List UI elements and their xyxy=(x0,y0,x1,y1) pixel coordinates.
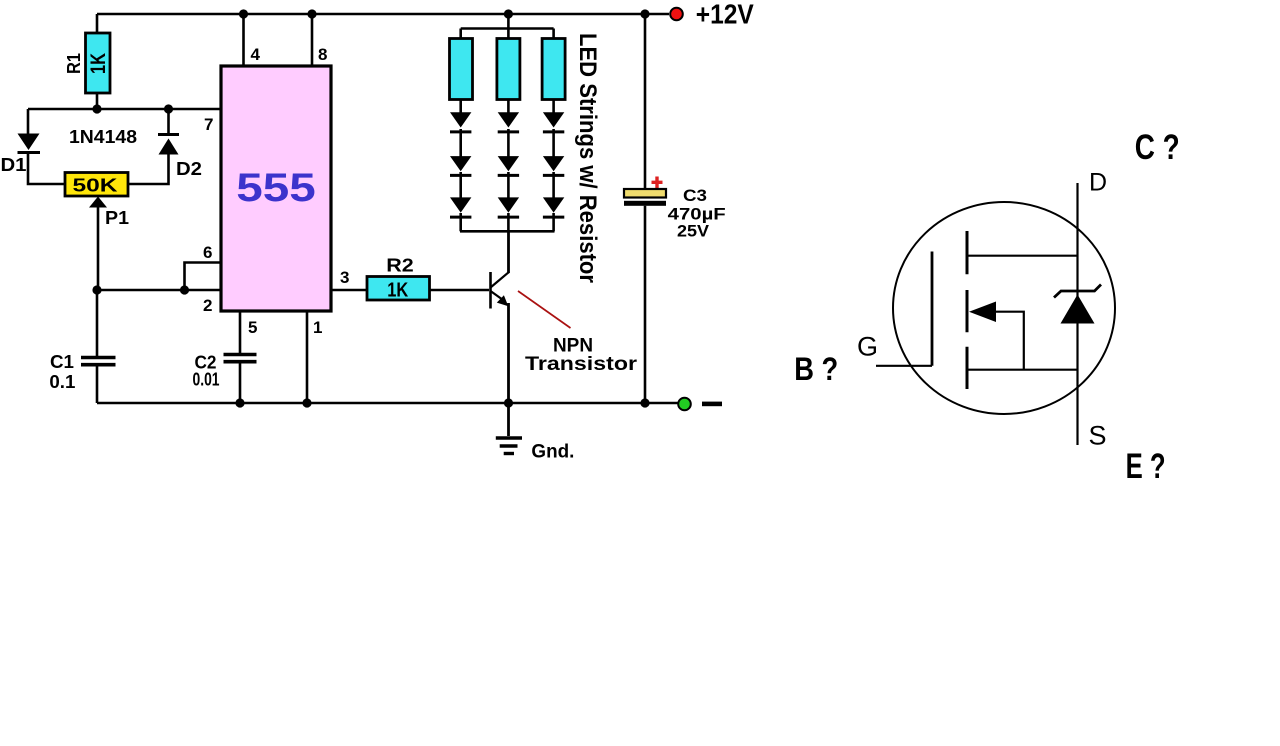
label 1N4148 xyxy=(69,127,137,147)
diode D1 xyxy=(18,134,41,153)
wiper arrow P1 xyxy=(89,197,107,208)
pin number 7 xyxy=(204,115,213,134)
svg-text:LED Strings w/ Resistor: LED Strings w/ Resistor xyxy=(574,33,601,283)
node C3 top xyxy=(640,9,649,18)
MOSFET body circle xyxy=(893,202,1115,414)
node pin8 xyxy=(307,9,316,18)
wire pin3 lead xyxy=(331,289,367,292)
polarity + (C3) xyxy=(652,177,663,189)
svg-text:B ?: B ? xyxy=(794,351,838,387)
node pin6/pin2 xyxy=(180,285,189,294)
wire string3 top xyxy=(552,29,555,39)
pin number 5 xyxy=(248,318,257,337)
label G xyxy=(857,332,878,362)
label P1 xyxy=(105,208,129,228)
wire C1 bottom lead xyxy=(96,366,99,403)
svg-text:G: G xyxy=(857,332,878,362)
wire pin4 lead xyxy=(242,14,245,66)
capacitor C2 xyxy=(224,355,257,362)
wire string2 top xyxy=(507,29,510,39)
svg-text:1K: 1K xyxy=(387,280,408,302)
label LED Strings w/ Resistor xyxy=(574,33,601,283)
node emitter/gnd xyxy=(504,398,513,407)
svg-text:C3: C3 xyxy=(683,186,707,205)
wire D1 bottom lead xyxy=(28,151,65,184)
svg-text:D1: D1 xyxy=(1,155,27,175)
annotation line to NPN xyxy=(518,291,571,328)
svg-text:C ?: C ? xyxy=(1135,128,1180,167)
wire top +12V rail xyxy=(97,13,669,16)
wire C3 bottom lead xyxy=(644,206,647,403)
label +12V xyxy=(696,0,754,30)
wire LED bottom bus xyxy=(460,230,555,233)
label R2 xyxy=(386,256,414,276)
svg-text:4: 4 xyxy=(251,45,261,64)
node pin4 xyxy=(239,9,248,18)
label R1 xyxy=(64,53,84,74)
wire drain-source vertical xyxy=(1076,183,1078,445)
node D2/pin7 xyxy=(164,104,173,113)
IC U1 555 xyxy=(221,66,331,311)
svg-text:0.1: 0.1 xyxy=(49,372,75,392)
wire ground rail xyxy=(97,402,678,405)
svg-text:3: 3 xyxy=(340,268,349,287)
svg-text:7: 7 xyxy=(204,115,213,134)
capacitor C3 xyxy=(624,189,666,206)
svg-text:Transistor: Transistor xyxy=(525,353,637,375)
pin number 8 xyxy=(318,45,327,64)
label E ? xyxy=(1126,447,1166,486)
node LED feed xyxy=(504,9,513,18)
wire D2 bottom lead xyxy=(128,153,169,184)
svg-text:C1: C1 xyxy=(50,352,74,372)
wire wiper to pin2 xyxy=(97,206,100,290)
node P1/C1/pin2 xyxy=(92,285,101,294)
svg-text:S: S xyxy=(1088,421,1106,451)
wire gate lead xyxy=(876,365,932,367)
LED string 1 xyxy=(450,100,471,232)
pin number 1 xyxy=(313,318,322,337)
label 555 xyxy=(236,166,316,210)
wire C1 top lead xyxy=(96,290,99,356)
resistor string1 xyxy=(450,39,473,100)
value 0.01 xyxy=(193,370,220,390)
LED string 2 xyxy=(498,100,519,232)
wire pin2 horizontal xyxy=(97,289,221,292)
potentiometer P1 50K xyxy=(65,173,128,197)
ground symbol xyxy=(496,403,522,454)
wire collector lead xyxy=(507,231,510,273)
pin number 4 xyxy=(251,45,261,64)
capacitor C1 xyxy=(81,358,116,365)
node C2/gnd xyxy=(235,398,244,407)
svg-text:555: 555 xyxy=(236,166,316,210)
svg-text:D2: D2 xyxy=(176,159,202,179)
resistor R2 xyxy=(367,277,430,301)
value 1K (R1) xyxy=(87,53,110,74)
pin number 6 xyxy=(203,243,212,262)
transistor Q1 NPN xyxy=(491,272,510,309)
value 0.1 xyxy=(49,372,75,392)
svg-text:6: 6 xyxy=(203,243,212,262)
wire drain connection xyxy=(967,255,1078,257)
wire C3 top lead xyxy=(644,14,647,189)
gate electrode bar xyxy=(931,252,934,366)
LED string 3 xyxy=(543,100,564,232)
svg-text:E ?: E ? xyxy=(1126,447,1166,486)
label Transistor xyxy=(525,353,637,375)
wire C2 bottom lead xyxy=(239,363,242,403)
value 50K xyxy=(73,176,118,196)
svg-text:5: 5 xyxy=(248,318,257,337)
wire LED feed drop xyxy=(507,14,510,29)
svg-text:P1: P1 xyxy=(105,208,129,228)
label C3 xyxy=(683,186,707,205)
wire D1 top lead xyxy=(27,109,30,134)
svg-text:1K: 1K xyxy=(87,53,110,74)
minus sign xyxy=(702,402,722,407)
wire emitter lead xyxy=(507,303,510,403)
svg-text:50K: 50K xyxy=(73,176,118,196)
svg-text:2: 2 xyxy=(203,296,212,315)
body diode (zener) xyxy=(1054,285,1101,324)
body arrow xyxy=(969,302,1024,370)
label C2 xyxy=(195,353,217,373)
label C1 xyxy=(50,352,74,372)
label D1 xyxy=(1,155,27,175)
label D2 xyxy=(176,159,202,179)
wire R1 top lead xyxy=(96,14,99,33)
node C3/gnd xyxy=(640,398,649,407)
wire pin7 horizontal xyxy=(28,108,221,111)
pin number 2 xyxy=(203,296,212,315)
label D xyxy=(1089,169,1107,197)
diode D2 xyxy=(158,135,179,155)
svg-text:1: 1 xyxy=(313,318,322,337)
node pin1/gnd xyxy=(302,398,311,407)
wire LED top bus xyxy=(461,27,554,30)
svg-text:25V: 25V xyxy=(677,222,710,241)
svg-text:R2: R2 xyxy=(386,256,414,276)
svg-text:8: 8 xyxy=(318,45,327,64)
channel dashed line xyxy=(966,231,969,389)
label NPN xyxy=(553,335,593,357)
resistor R1 xyxy=(86,33,111,93)
terminal negative xyxy=(678,398,691,411)
label B ? xyxy=(794,351,838,387)
wire R1 bottom lead xyxy=(96,93,99,109)
wire D2 top lead xyxy=(167,109,170,135)
wire R2 to base xyxy=(430,289,490,292)
svg-text:1N4148: 1N4148 xyxy=(69,127,137,147)
label Gnd. xyxy=(531,442,574,463)
svg-text:+12V: +12V xyxy=(696,0,754,30)
node R1/pin7 xyxy=(92,104,101,113)
svg-text:R1: R1 xyxy=(64,53,84,74)
wire pin6 jumper xyxy=(185,263,222,291)
svg-text:D: D xyxy=(1089,169,1107,197)
value 25V xyxy=(677,222,710,241)
wire pin8 lead xyxy=(311,14,314,66)
wire string1 top xyxy=(459,29,462,39)
svg-text:Gnd.: Gnd. xyxy=(531,442,574,463)
resistor string2 xyxy=(497,39,520,100)
value 1K (R2) xyxy=(387,280,408,302)
pin number 3 xyxy=(340,268,349,287)
label S xyxy=(1088,421,1106,451)
label C ? xyxy=(1135,128,1180,167)
resistor string3 xyxy=(542,39,565,100)
terminal +12V xyxy=(670,8,683,21)
svg-text:0.01: 0.01 xyxy=(193,370,220,390)
wire pin5 lead xyxy=(239,311,242,353)
wire source connection xyxy=(967,369,1078,371)
wire pin1 lead xyxy=(306,311,309,403)
value 470uF xyxy=(668,205,726,224)
